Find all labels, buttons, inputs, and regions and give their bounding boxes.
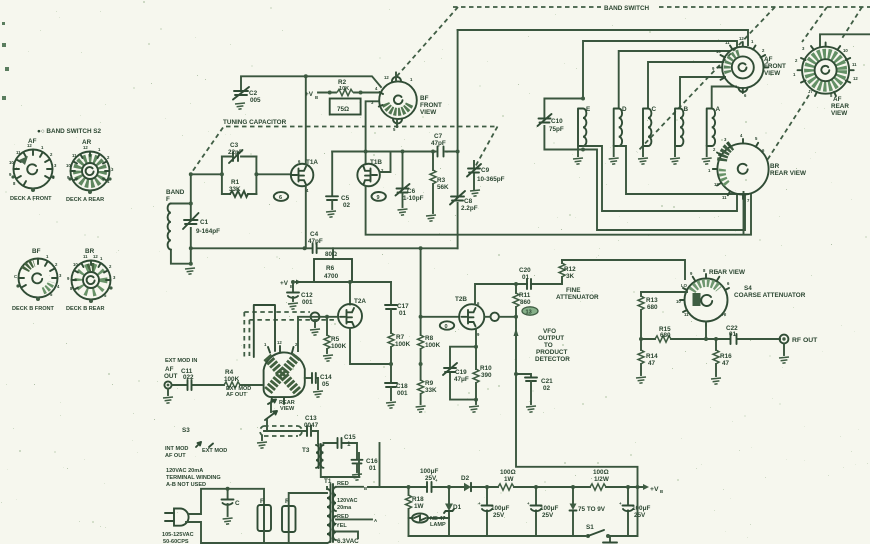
svg-text:C16: C16 xyxy=(366,458,378,465)
svg-text:10K: 10K xyxy=(339,86,349,92)
svg-text:C18: C18 xyxy=(396,383,408,390)
svg-text:TUNING CAPACITOR: TUNING CAPACITOR xyxy=(223,119,287,126)
svg-text:C1: C1 xyxy=(200,219,209,226)
svg-text:AF OUT: AF OUT xyxy=(226,392,247,398)
svg-text:1: 1 xyxy=(347,441,351,448)
svg-text:T1A: T1A xyxy=(306,159,318,166)
svg-text:EXT MOD: EXT MOD xyxy=(202,448,227,454)
svg-text:11: 11 xyxy=(684,312,689,317)
svg-text:C21: C21 xyxy=(541,378,553,385)
svg-text:680: 680 xyxy=(660,332,671,339)
svg-text:C19: C19 xyxy=(455,369,467,376)
svg-text:11: 11 xyxy=(725,40,730,45)
svg-text:F: F xyxy=(166,196,170,203)
svg-text:R7: R7 xyxy=(396,334,405,341)
svg-text:6.3VAC: 6.3VAC xyxy=(337,538,359,544)
svg-text:VIEW: VIEW xyxy=(420,109,436,116)
svg-text:12: 12 xyxy=(739,36,744,41)
svg-text:001: 001 xyxy=(302,299,313,306)
svg-text:R14: R14 xyxy=(646,353,658,360)
svg-text:C10: C10 xyxy=(551,118,563,125)
svg-text:10: 10 xyxy=(676,299,681,304)
svg-text:R8: R8 xyxy=(425,335,434,342)
svg-text:9-164pF: 9-164pF xyxy=(196,228,220,235)
svg-text:C2: C2 xyxy=(249,90,258,97)
svg-text:RF OUT: RF OUT xyxy=(792,337,818,344)
svg-text:1-10pF: 1-10pF xyxy=(403,195,424,202)
svg-text:C15: C15 xyxy=(344,434,356,441)
svg-text:VFO: VFO xyxy=(543,328,556,335)
svg-text:C8: C8 xyxy=(464,198,473,205)
svg-text:D1: D1 xyxy=(453,504,462,511)
svg-text:10: 10 xyxy=(73,262,78,267)
svg-text:10: 10 xyxy=(66,163,71,168)
svg-text:YEL: YEL xyxy=(336,523,347,529)
svg-text:100μF: 100μF xyxy=(420,468,438,475)
svg-text:01: 01 xyxy=(522,274,530,281)
svg-text:B: B xyxy=(364,486,367,491)
svg-text:EXT MOD IN: EXT MOD IN xyxy=(165,358,197,364)
svg-text:11: 11 xyxy=(852,62,857,67)
svg-text:80Ω: 80Ω xyxy=(325,251,337,258)
svg-text:C7: C7 xyxy=(434,133,443,140)
svg-text:120VAC 20mA: 120VAC 20mA xyxy=(166,468,203,474)
svg-text:R6: R6 xyxy=(326,265,335,272)
svg-text:C: C xyxy=(235,500,240,507)
svg-text:AF: AF xyxy=(165,366,174,373)
svg-text:001: 001 xyxy=(397,390,408,397)
svg-text:25V: 25V xyxy=(493,512,505,519)
svg-text:33K: 33K xyxy=(229,186,241,193)
svg-text:R12: R12 xyxy=(564,266,576,273)
svg-text:DECK B REAR: DECK B REAR xyxy=(66,306,105,312)
svg-text:120VAC: 120VAC xyxy=(337,498,358,504)
svg-text:13: 13 xyxy=(526,310,532,316)
svg-text:12: 12 xyxy=(853,76,858,81)
svg-text:12: 12 xyxy=(27,143,32,148)
svg-text:VIEW: VIEW xyxy=(764,70,780,77)
svg-text:S4: S4 xyxy=(744,285,752,292)
svg-text:S1: S1 xyxy=(586,524,594,531)
svg-text:DETECTOR: DETECTOR xyxy=(535,356,570,363)
svg-text:LAMP: LAMP xyxy=(430,522,446,528)
svg-text:3K: 3K xyxy=(566,273,575,280)
svg-text:HI: HI xyxy=(722,312,726,317)
svg-text:T1B: T1B xyxy=(370,159,382,166)
svg-text:R4: R4 xyxy=(225,369,234,376)
svg-text:R1: R1 xyxy=(231,179,240,186)
svg-text:DECK B FRONT: DECK B FRONT xyxy=(12,306,55,312)
svg-text:AF: AF xyxy=(764,56,773,63)
svg-text:100K: 100K xyxy=(224,376,240,383)
svg-text:10: 10 xyxy=(9,160,14,165)
svg-text:+V: +V xyxy=(280,280,289,287)
svg-text:DECK A REAR: DECK A REAR xyxy=(66,197,104,203)
svg-text:S3: S3 xyxy=(182,427,190,434)
svg-text:100K: 100K xyxy=(395,341,411,348)
svg-text:AF OUT: AF OUT xyxy=(165,453,186,459)
svg-text:REAR: REAR xyxy=(831,103,849,110)
svg-text:390: 390 xyxy=(481,372,492,379)
svg-text:D: D xyxy=(622,106,627,113)
svg-text:100Ω: 100Ω xyxy=(593,469,609,476)
svg-text:05: 05 xyxy=(322,381,330,388)
svg-text:C12: C12 xyxy=(301,292,313,299)
svg-text:10: 10 xyxy=(716,49,721,54)
svg-text:E: E xyxy=(586,106,590,113)
svg-text:INT MOD: INT MOD xyxy=(165,446,188,452)
svg-text:B: B xyxy=(315,95,318,100)
svg-text:R2: R2 xyxy=(338,79,347,86)
svg-text:12: 12 xyxy=(83,145,88,150)
svg-text:12: 12 xyxy=(714,182,719,187)
svg-text:R9: R9 xyxy=(425,380,434,387)
svg-text:50-60CPS: 50-60CPS xyxy=(163,539,189,544)
svg-text:47: 47 xyxy=(722,360,730,367)
svg-text:10: 10 xyxy=(843,48,848,53)
svg-text:100K: 100K xyxy=(425,342,441,349)
svg-text:BF: BF xyxy=(32,248,41,255)
svg-text:+V: +V xyxy=(650,486,659,493)
svg-text:01: 01 xyxy=(729,331,737,338)
svg-text:75pF: 75pF xyxy=(549,126,564,133)
svg-text:680: 680 xyxy=(647,304,658,311)
svg-text:25V: 25V xyxy=(542,512,554,519)
svg-text:75 TO 9V: 75 TO 9V xyxy=(578,506,606,513)
svg-text:75Ω: 75Ω xyxy=(337,106,349,113)
svg-text:47pF: 47pF xyxy=(431,140,446,147)
svg-text:4700: 4700 xyxy=(324,273,339,280)
svg-text:02: 02 xyxy=(543,385,551,392)
svg-text:LO: LO xyxy=(681,283,688,288)
svg-text:BAND: BAND xyxy=(166,189,185,196)
svg-text:25V: 25V xyxy=(634,512,646,519)
svg-text:100μF: 100μF xyxy=(491,505,509,512)
svg-text:AF: AF xyxy=(833,96,842,103)
svg-text:C3: C3 xyxy=(230,142,239,149)
svg-text:B: B xyxy=(684,106,689,113)
svg-text:0: 0 xyxy=(445,324,448,330)
svg-text:1/2W: 1/2W xyxy=(594,476,609,483)
svg-text:1W: 1W xyxy=(414,503,424,510)
svg-text:R16: R16 xyxy=(720,353,732,360)
svg-text:12: 12 xyxy=(277,340,282,345)
svg-text:33K: 33K xyxy=(425,387,437,394)
svg-text:01: 01 xyxy=(369,465,377,472)
svg-text:TERMINAL WINDING: TERMINAL WINDING xyxy=(166,475,221,481)
svg-text:OUTPUT: OUTPUT xyxy=(538,335,564,342)
svg-text:10-365pF: 10-365pF xyxy=(477,176,505,183)
svg-text:100μF: 100μF xyxy=(540,505,558,512)
svg-text:DECK A FRONT: DECK A FRONT xyxy=(10,196,52,202)
svg-text:12: 12 xyxy=(384,75,389,80)
svg-text:B: B xyxy=(660,489,663,494)
svg-text:C4: C4 xyxy=(310,231,319,238)
svg-text:100μF: 100μF xyxy=(632,505,650,512)
svg-text:ATTENUATOR: ATTENUATOR xyxy=(556,294,599,301)
svg-text:D2: D2 xyxy=(461,475,470,482)
svg-text:OUT: OUT xyxy=(164,373,178,380)
svg-text:F: F xyxy=(260,498,264,505)
svg-text:A: A xyxy=(374,518,377,523)
svg-text:BAND SWITCH: BAND SWITCH xyxy=(604,5,650,12)
svg-text:REAR VIEW: REAR VIEW xyxy=(709,269,745,276)
svg-text:TO: TO xyxy=(544,342,553,349)
svg-text:C13: C13 xyxy=(305,415,317,422)
svg-text:●○ BAND SWITCH S2: ●○ BAND SWITCH S2 xyxy=(37,128,102,135)
svg-text:22pF: 22pF xyxy=(228,149,243,156)
svg-text:C17: C17 xyxy=(397,303,409,310)
svg-text:R5: R5 xyxy=(331,336,340,343)
svg-text:C20: C20 xyxy=(519,267,531,274)
svg-text:860: 860 xyxy=(520,299,531,306)
svg-text:0047: 0047 xyxy=(304,422,319,429)
svg-text:11: 11 xyxy=(72,153,77,158)
svg-text:100K: 100K xyxy=(331,343,347,350)
svg-text:47μF: 47μF xyxy=(454,376,469,383)
svg-text:9: 9 xyxy=(377,195,380,201)
svg-text:A: A xyxy=(716,106,721,113)
svg-text:BF: BF xyxy=(420,95,429,102)
svg-text:C: C xyxy=(652,106,657,113)
svg-text:C: C xyxy=(14,274,17,279)
svg-text:1W: 1W xyxy=(504,476,514,483)
svg-text:56K: 56K xyxy=(437,184,449,191)
svg-text:FRONT: FRONT xyxy=(420,102,442,109)
svg-text:VIEW: VIEW xyxy=(831,110,847,117)
svg-text:J7: J7 xyxy=(808,89,813,94)
svg-text:C6: C6 xyxy=(407,188,416,195)
svg-text:T3: T3 xyxy=(302,447,310,454)
svg-text:C14: C14 xyxy=(320,374,332,381)
svg-text:2.2pF: 2.2pF xyxy=(461,205,478,212)
svg-text:C9: C9 xyxy=(481,167,490,174)
svg-text:BR: BR xyxy=(770,163,780,170)
svg-text:T2A: T2A xyxy=(354,298,366,305)
svg-text:100Ω: 100Ω xyxy=(500,469,516,476)
svg-text:47: 47 xyxy=(648,360,656,367)
svg-text:47pF: 47pF xyxy=(308,238,323,245)
svg-text:R18: R18 xyxy=(412,496,424,503)
svg-text:PRODUCT: PRODUCT xyxy=(536,349,567,356)
svg-text:A-B NOT USED: A-B NOT USED xyxy=(166,482,206,488)
svg-text:FINE: FINE xyxy=(566,287,580,294)
svg-text:022: 022 xyxy=(183,374,194,381)
svg-text:6: 6 xyxy=(279,195,282,201)
svg-text:005: 005 xyxy=(250,97,261,104)
svg-text:11: 11 xyxy=(722,195,727,200)
svg-text:FRONT: FRONT xyxy=(764,63,786,70)
svg-text:R13: R13 xyxy=(646,297,658,304)
svg-text:02: 02 xyxy=(343,202,351,209)
svg-text:R11: R11 xyxy=(519,292,531,299)
svg-text:105-125VAC: 105-125VAC xyxy=(162,532,194,538)
svg-text:12: 12 xyxy=(93,254,98,259)
svg-text:01: 01 xyxy=(399,310,407,317)
svg-text:REAR VIEW: REAR VIEW xyxy=(770,170,806,177)
svg-text:R3: R3 xyxy=(437,177,446,184)
svg-text:C5: C5 xyxy=(341,195,350,202)
svg-text:20ma: 20ma xyxy=(337,505,352,511)
svg-text:COARSE ATTENUATOR: COARSE ATTENUATOR xyxy=(734,292,806,299)
svg-text:11: 11 xyxy=(83,254,88,259)
svg-text:11: 11 xyxy=(16,150,21,155)
svg-text:R10: R10 xyxy=(480,365,492,372)
svg-text:T2B: T2B xyxy=(455,296,467,303)
svg-text:VIEW: VIEW xyxy=(280,406,295,412)
